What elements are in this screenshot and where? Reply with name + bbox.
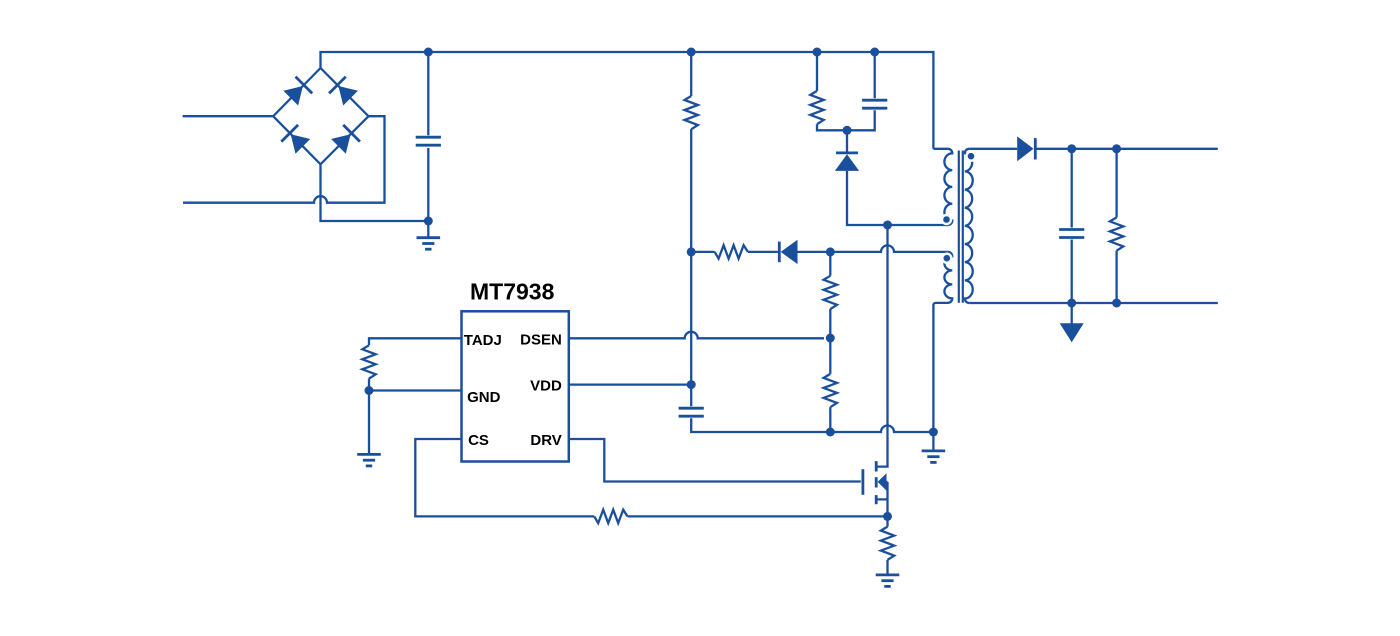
ground primary earth at aux return <box>932 432 934 451</box>
node drain junction on primary return <box>883 221 892 230</box>
node C1 bottom junction <box>424 217 433 226</box>
node output cap bottom junction <box>1067 299 1076 308</box>
wire R3 to D6 cathode <box>748 251 778 253</box>
wire DSEN pin (hops over startup branch) <box>569 332 824 339</box>
capacitor C2 snubber lead <box>874 52 876 98</box>
svg-text:GND: GND <box>467 389 501 406</box>
wire secondary bottom / output return <box>969 302 1218 304</box>
node output cap top junction <box>1067 144 1076 153</box>
wire VDD cap to primary ground rail <box>691 418 824 432</box>
wire divider top to aux winding (hops over drain line) <box>830 245 948 252</box>
ground primary earth at C1 <box>427 221 429 238</box>
node snubber resistor junction <box>813 48 822 57</box>
resistor R1 startup (HV rail to VDD) <box>685 96 698 129</box>
resistor R6 TADJ set <box>362 345 375 378</box>
capacitor C4 output upper lead <box>1071 149 1073 228</box>
transformer T1 primary winding <box>933 149 952 225</box>
wire GND pin <box>369 389 462 391</box>
wire startup branch vertical (through DSEN hop) <box>690 129 692 406</box>
wire R7 to source node <box>628 515 888 517</box>
node VDD junction <box>687 380 696 389</box>
node load top junction <box>1112 144 1121 153</box>
transistor Q1 channel middle stub <box>875 477 878 487</box>
wire divider upper lead <box>829 252 831 276</box>
svg-text:MT7938: MT7938 <box>470 279 555 305</box>
wire D6 anode to divider top <box>798 251 831 253</box>
ground secondary ground arrow <box>1071 303 1073 324</box>
transistor Q1 channel top stub <box>875 461 878 471</box>
diode BR1-D2 (upper-left arm, points to + node) <box>283 86 303 106</box>
resistor R3 feedback <box>715 245 748 258</box>
wire TADJ pin to R6 <box>369 338 462 345</box>
polarity dot T1 primary <box>941 214 952 225</box>
capacitor C4 output plates <box>1059 228 1084 231</box>
wire R8 to ground <box>886 560 888 575</box>
node Q1 source junction <box>883 512 892 521</box>
resistor R9 load lower lead <box>1115 251 1117 303</box>
transistor Q1 gate bar <box>862 469 865 495</box>
wire R2 bottom to snubber node <box>817 124 847 130</box>
node startup resistor junction <box>687 48 696 57</box>
svg-text:DSEN: DSEN <box>520 332 562 349</box>
wire top bus (rectified HV rail) <box>321 52 934 149</box>
wire VDD pin <box>569 383 691 385</box>
diode BR1-D4 (lower-right arm, points to AC N node) <box>331 134 351 154</box>
resistor R7 current sense filter <box>594 510 627 523</box>
wire AC input line N (hops over bridge negative lead) <box>183 116 385 203</box>
diode D5 snubber clamp cathode bar <box>836 151 858 154</box>
wire secondary top to D7 <box>969 148 1017 150</box>
wire D7 cathode to output+ <box>1035 148 1218 150</box>
wire snubber node to D5 cathode <box>846 130 848 153</box>
svg-text:CS: CS <box>468 432 489 449</box>
node DSEN junction <box>826 334 835 343</box>
node bridge output junction <box>424 48 433 57</box>
diode D6 feedback rectifier cathode bar <box>778 242 781 263</box>
diode D5 snubber clamp (points up) <box>835 154 859 171</box>
node feedback tap junction <box>687 247 696 256</box>
node load bottom junction <box>1112 299 1121 308</box>
resistor R9 load <box>1110 217 1123 250</box>
wire AC input line L <box>183 115 274 117</box>
node divider bottom junction <box>826 428 835 437</box>
wire feedback tap to R3 <box>691 251 714 253</box>
diode BR1-D1 (lower-left arm, points to AC L node) <box>291 134 311 154</box>
svg-text:TADJ: TADJ <box>464 332 502 349</box>
resistor R8 current sense lead <box>886 516 888 526</box>
ground signal ground below R8 <box>876 574 900 577</box>
capacitor C3 VDD bypass plates <box>679 407 704 410</box>
capacitor C1 plates <box>416 136 441 139</box>
node snubber RC junction <box>843 126 852 135</box>
diode BR1-D3 (upper-right arm, points to + node) <box>338 86 358 106</box>
resistor R2 snubber lead <box>816 52 818 91</box>
resistor R9 load upper lead <box>1115 149 1117 218</box>
diode D6 feedback rectifier (points left) <box>781 240 798 264</box>
wire C2 bottom to snubber node <box>847 110 875 130</box>
IC U1 MT7938 body <box>462 311 569 461</box>
capacitor C1 bulk input cap lead <box>427 52 429 135</box>
wire Q1 source/body lead <box>876 482 887 517</box>
bridge rectifier BR1 diamond <box>273 68 368 164</box>
diode D7 cathode bar <box>1034 138 1037 159</box>
transistor Q1 channel bottom stub <box>875 495 878 504</box>
polarity dot T1 secondary <box>965 151 976 162</box>
wire R5 bottom to ground rail <box>829 407 831 432</box>
capacitor C1 lower lead <box>427 148 429 221</box>
transistor Q1 body arrow (points into channel) <box>878 473 887 490</box>
node divider top junction <box>826 247 835 256</box>
polarity dot T1 auxiliary <box>941 253 952 264</box>
svg-text:DRV: DRV <box>530 432 561 449</box>
resistor R4 DSEN divider upper <box>824 276 837 309</box>
wire bridge negative lead to bulk cap node <box>321 164 429 221</box>
wire startup branch upper lead <box>690 52 692 96</box>
capacitor C4 output lower lead <box>1071 240 1073 304</box>
wire primary ground rail (hops over drain line) <box>824 426 933 433</box>
ground signal ground below R6 <box>368 391 370 455</box>
wire D5 anode to primary winding bottom <box>847 171 948 225</box>
wire R4 bottom to DSEN node <box>829 309 831 374</box>
diode D7 output rectifier (points right) <box>1017 136 1033 161</box>
transformer T1 secondary winding <box>965 149 973 303</box>
transformer T1 core <box>958 151 960 303</box>
capacitor C2 snubber plates <box>862 99 887 102</box>
resistor R2 snubber <box>810 91 823 124</box>
node TADJ/GND junction <box>365 386 374 395</box>
wire R6 bottom to GND node <box>368 379 370 391</box>
transformer T1 auxiliary winding <box>933 252 952 432</box>
node snubber capacitor junction <box>870 48 879 57</box>
wire DRV pin to gate <box>569 439 861 482</box>
svg-text:VDD: VDD <box>530 377 562 394</box>
resistor R8 current sense <box>881 527 894 560</box>
resistor R5 DSEN divider lower <box>824 374 837 407</box>
wire Q1 drain lead from primary return <box>876 225 887 467</box>
wire CS pin to R7 <box>415 439 594 516</box>
node aux return junction <box>929 428 938 437</box>
